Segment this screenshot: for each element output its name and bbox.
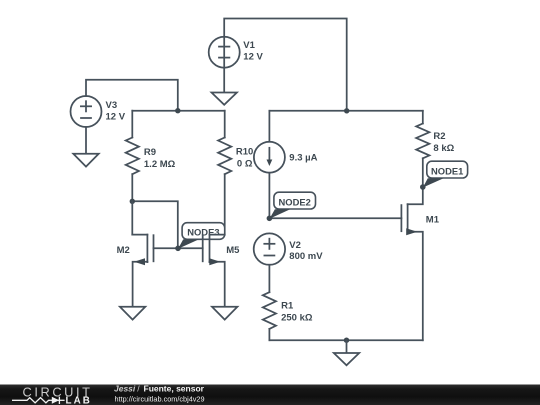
- svg-text:M2: M2: [117, 245, 130, 256]
- node NODE3 wedge: [175, 239, 199, 251]
- resistor R9: [126, 111, 139, 202]
- label R2 value: [433, 131, 454, 154]
- svg-text:LAB: LAB: [66, 395, 92, 405]
- svg-text:R9: R9: [144, 147, 156, 158]
- label R10 value: [236, 147, 253, 170]
- footer credit text: [114, 383, 205, 403]
- svg-text:V3: V3: [106, 100, 118, 111]
- svg-text:NODE2: NODE2: [279, 196, 311, 207]
- wire right rail: [269, 110, 422, 112]
- label R1 value: [281, 301, 313, 324]
- ground (M5): [212, 307, 237, 320]
- ground (V1): [212, 93, 237, 105]
- svg-text:M1: M1: [426, 214, 440, 225]
- svg-text:800 mV: 800 mV: [289, 251, 323, 262]
- node junction right rail: [344, 108, 349, 113]
- svg-text:9.3 µA: 9.3 µA: [289, 153, 317, 164]
- label V3 value: [106, 100, 126, 123]
- wire V1 top loop: [224, 19, 347, 111]
- svg-text:1.2 MΩ: 1.2 MΩ: [144, 159, 176, 170]
- svg-text:250 kΩ: 250 kΩ: [281, 312, 313, 323]
- node NODE3 flag box: [182, 223, 225, 240]
- wire ground stub: [346, 340, 348, 353]
- svg-text:R10: R10: [236, 147, 253, 158]
- svg-text:Jessi: Jessi: [114, 383, 136, 393]
- wire current mirror: [132, 201, 178, 248]
- node junction bottom rail: [344, 338, 349, 343]
- transistor M5: [178, 235, 225, 307]
- svg-text:http://circuitlab.com/cbj4v29: http://circuitlab.com/cbj4v29: [115, 394, 205, 403]
- voltage source V3: [71, 96, 102, 127]
- svg-text:V1: V1: [243, 40, 255, 51]
- label R9 value: [144, 147, 176, 170]
- current source I1: [254, 111, 285, 219]
- svg-text:V2: V2: [289, 240, 301, 251]
- ground (V3): [73, 154, 98, 167]
- ground (M2): [120, 307, 145, 320]
- transistor M2: [132, 201, 178, 306]
- wire gate M1: [269, 217, 401, 219]
- ground (main): [334, 353, 359, 365]
- node NODE1 flag: [420, 161, 468, 190]
- transistor M1: [401, 187, 422, 340]
- svg-text:M5: M5: [226, 245, 240, 256]
- label V2 value: [289, 240, 323, 262]
- svg-text:12 V: 12 V: [243, 52, 263, 63]
- svg-text:12 V: 12 V: [106, 112, 126, 123]
- svg-text:R2: R2: [433, 131, 445, 142]
- wire V1 to ground: [223, 68, 225, 93]
- svg-text:NODE1: NODE1: [431, 165, 463, 176]
- svg-text:R1: R1: [281, 301, 294, 312]
- wire left rail: [132, 110, 224, 112]
- voltage source V1: [209, 37, 240, 68]
- wire V3 top loop: [86, 80, 178, 111]
- svg-text:Fuente, sensor: Fuente, sensor: [144, 383, 205, 393]
- resistor R10: [218, 111, 231, 235]
- voltage source V2: [254, 233, 285, 264]
- svg-text:8 kΩ: 8 kΩ: [433, 143, 454, 154]
- svg-text:0 Ω: 0 Ω: [237, 158, 253, 169]
- wire V3 to ground: [85, 127, 87, 154]
- resistor R2: [416, 111, 429, 187]
- resistor R1: [263, 265, 276, 340]
- wire bottom rail: [269, 339, 422, 341]
- node NODE2 flag: [267, 192, 316, 221]
- node junction R9 tee: [130, 199, 135, 204]
- logo CircuitLab: [12, 384, 93, 405]
- node junction left rail: [175, 108, 180, 113]
- label V1 value: [243, 40, 263, 63]
- footer bar: [0, 385, 540, 405]
